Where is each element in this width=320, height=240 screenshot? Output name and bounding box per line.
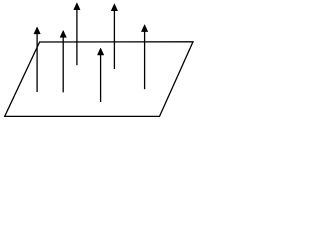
plane surface (parallelogram)	[5, 42, 193, 117]
field line arrow 2	[60, 30, 66, 92]
field line arrow 4	[97, 48, 103, 102]
field line arrow 3	[74, 3, 80, 65]
field line arrow 6	[141, 25, 147, 90]
field line arrow 1	[34, 27, 40, 92]
field line arrow 5	[111, 4, 117, 69]
